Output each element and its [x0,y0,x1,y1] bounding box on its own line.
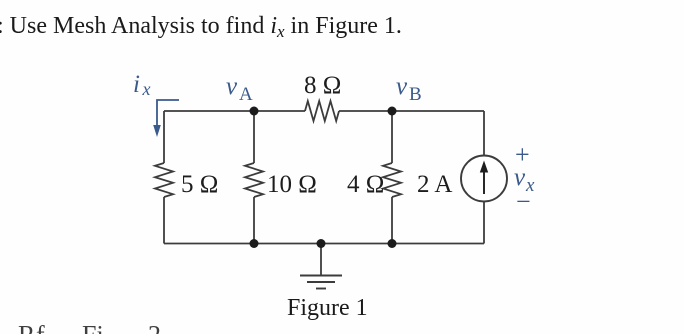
svg-text:2 A: 2 A [417,171,452,198]
svg-text:v: v [396,73,408,100]
svg-text:10 Ω: 10 Ω [267,171,317,198]
svg-text:A: A [239,84,253,105]
svg-text:5 Ω: 5 Ω [181,171,218,198]
svg-text:B: B [409,84,422,105]
current source I1 2A [461,156,507,202]
wire right vertical top [483,111,485,156]
resistor R 4ohm [383,163,401,197]
wire top rail left segment [164,110,305,112]
current ix indicator arrow [157,100,179,126]
node vA junction dot [250,107,259,116]
svg-text:f: f [36,321,45,334]
svg-text:: Use Mesh Analysis to find ix: : Use Mesh Analysis to find ix in Figure… [0,13,402,41]
svg-text:i: i [133,71,140,98]
wire right vertical bottom [483,202,485,244]
svg-text:x: x [142,79,151,99]
wire 4ohm branch top [391,111,393,163]
svg-text:Fi: Fi [82,321,104,334]
wire bottom rail [164,243,484,245]
resistor R 10ohm [245,163,263,197]
wire left vertical top [163,111,165,163]
svg-text:2: 2 [148,321,161,334]
wire 10ohm branch top [253,111,255,163]
current source arrow [483,169,485,194]
wire 10ohm branch bottom [253,197,255,244]
wire left vertical bottom [163,197,165,244]
svg-text:8 Ω: 8 Ω [304,72,341,99]
svg-text:v: v [226,73,238,100]
svg-text:−: − [516,187,531,216]
wire top rail right segment [339,110,484,112]
junction dot bottom 10ohm [250,239,259,248]
junction dot bottom 4ohm [388,239,397,248]
junction dot ground [317,239,326,248]
resistor R 5ohm [155,163,173,197]
svg-text:4 Ω: 4 Ω [347,171,384,198]
svg-text:Figure 1: Figure 1 [287,295,368,321]
wire 4ohm branch bottom [391,197,393,244]
svg-text:R: R [18,321,36,334]
ground [300,244,342,289]
node vB junction dot [388,107,397,116]
resistor R 8ohm [305,101,339,121]
